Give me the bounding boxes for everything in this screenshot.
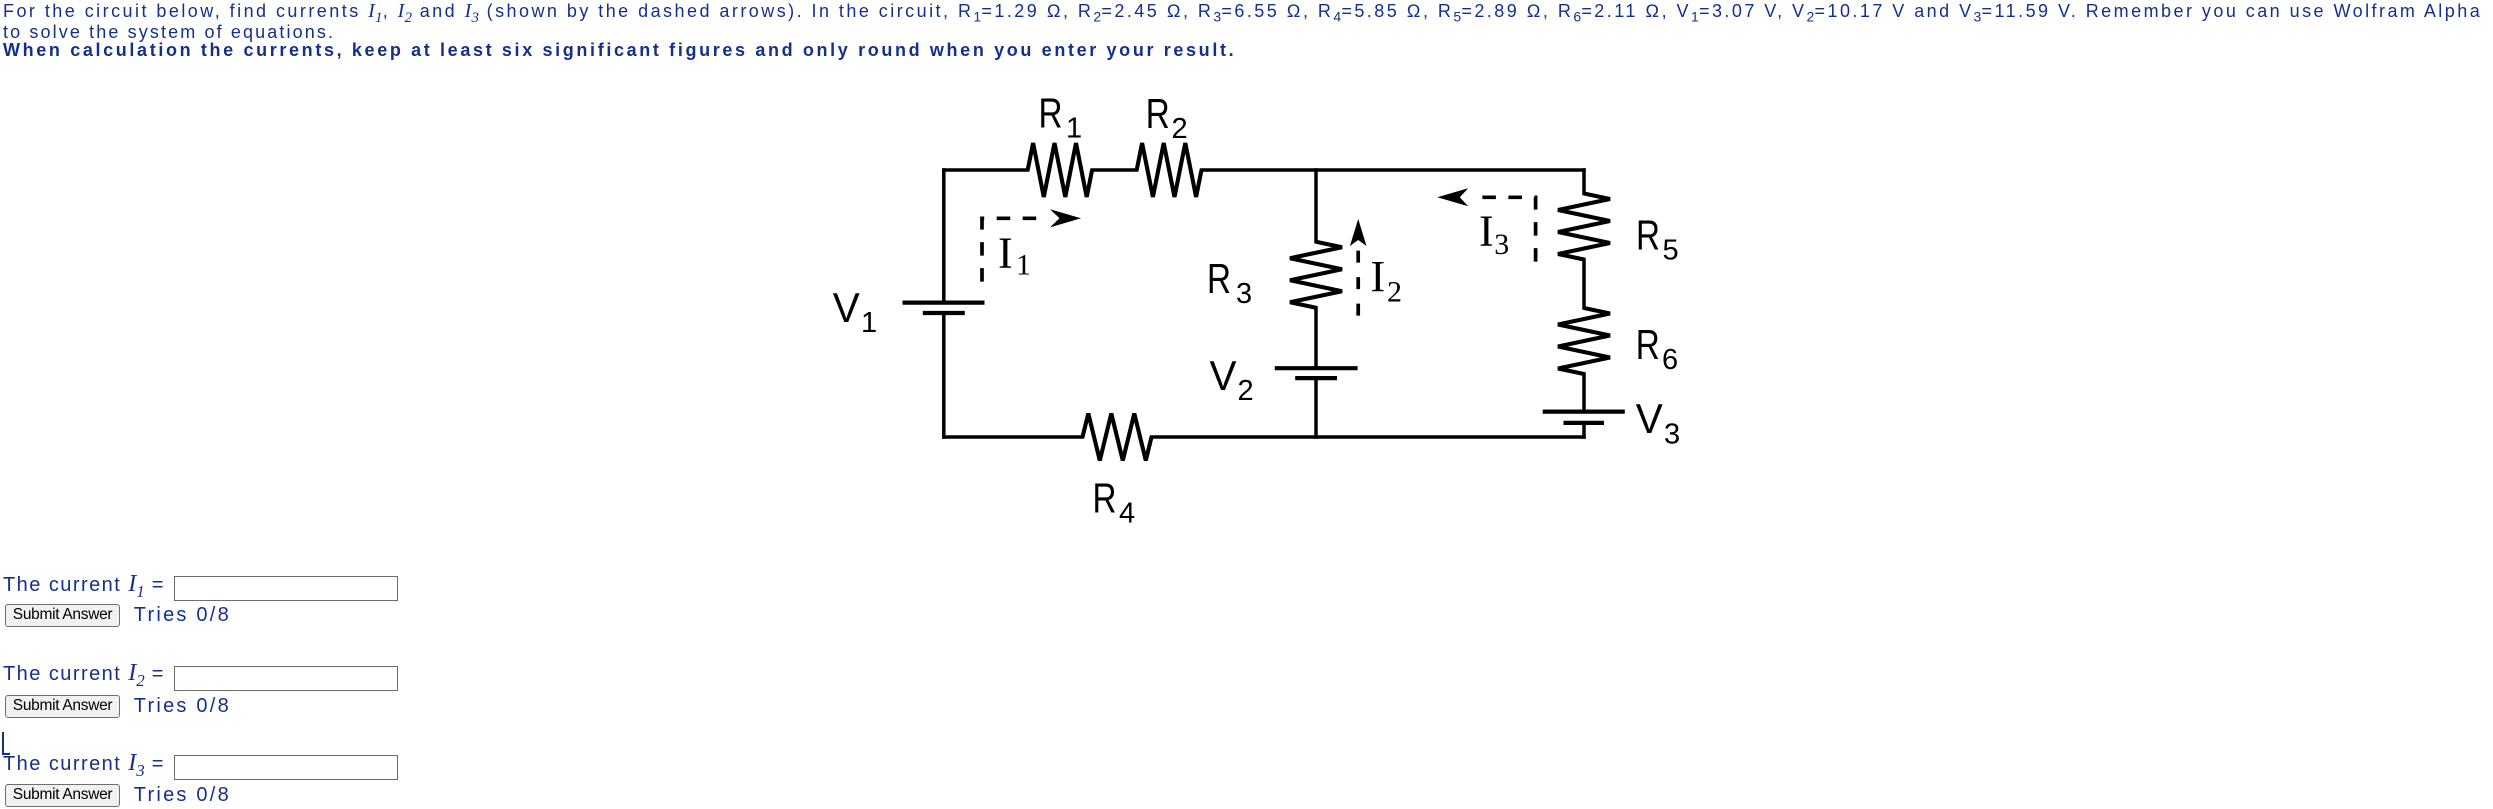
svg-text:R: R: [1636, 321, 1660, 368]
wire top-right segment: [1202, 168, 1585, 172]
svg-text:R: R: [1636, 212, 1660, 259]
current arrow I1 (dashed): [982, 209, 1081, 281]
wire right vertical top (node to R5): [1582, 170, 1586, 194]
resistor R3: [1290, 242, 1342, 308]
svg-text:I: I: [998, 228, 1013, 277]
battery V2: [1275, 368, 1358, 378]
resistor R6: [1558, 308, 1610, 374]
svg-text:V: V: [1210, 352, 1237, 399]
wire between R6 and V3: [1582, 374, 1586, 412]
label R2: [1146, 90, 1188, 145]
resistor R2: [1137, 143, 1202, 197]
svg-text:4: 4: [1119, 498, 1135, 530]
label R1: [1039, 90, 1083, 145]
wire top-left segment: [944, 168, 1028, 172]
label V3: [1636, 395, 1680, 451]
answer row 2: [3, 661, 163, 693]
label V2: [1210, 352, 1254, 407]
wire bottom-left segment: [944, 435, 1083, 439]
svg-text:V: V: [1636, 395, 1663, 442]
svg-text:V: V: [833, 284, 860, 331]
svg-text:3: 3: [1236, 278, 1252, 310]
svg-text:I: I: [1371, 252, 1386, 301]
current arrow I2 (dashed): [1350, 219, 1367, 316]
label I1: [998, 228, 1031, 281]
wire between R1 and R2: [1092, 168, 1137, 172]
label R5: [1636, 212, 1679, 267]
wire left vertical upper (V1 + to top): [942, 170, 946, 303]
svg-text:R: R: [1039, 90, 1063, 137]
current arrow I3 (dashed): [1437, 188, 1535, 261]
label I2: [1371, 252, 1403, 309]
svg-text:2: 2: [1172, 113, 1188, 145]
label R4: [1093, 474, 1136, 529]
text caret artifact: [2, 732, 10, 755]
wire middle branch bottom (V2 - to bottom node): [1314, 378, 1318, 437]
label R6: [1636, 321, 1678, 376]
label V1: [833, 284, 877, 339]
battery V1: [903, 303, 985, 313]
resistor R5: [1558, 194, 1610, 260]
svg-text:1: 1: [1066, 113, 1082, 145]
svg-text:3: 3: [1664, 419, 1680, 451]
svg-text:2: 2: [1387, 276, 1402, 309]
label I3: [1479, 207, 1509, 262]
svg-text:1: 1: [861, 307, 877, 339]
wire middle branch mid (R3 to V2): [1314, 308, 1318, 369]
svg-text:6: 6: [1662, 344, 1678, 376]
battery V3: [1543, 412, 1625, 423]
svg-text:R: R: [1093, 474, 1117, 521]
svg-text:I: I: [1479, 207, 1494, 256]
wire middle branch top (node to R3): [1314, 170, 1318, 242]
answer row 1: [3, 572, 163, 604]
answer row 3: [3, 751, 163, 783]
wire between R5 and R6: [1582, 260, 1586, 309]
svg-text:1: 1: [1016, 248, 1031, 281]
svg-text:3: 3: [1494, 228, 1509, 261]
resistor R1: [1028, 143, 1092, 197]
wire left vertical lower (V1 - to bottom): [942, 313, 946, 437]
wire V3 - to bottom wire: [1582, 423, 1586, 437]
label R3: [1207, 255, 1252, 310]
top problem text: [3, 1, 2482, 29]
svg-text:2: 2: [1238, 375, 1254, 407]
svg-text:5: 5: [1663, 235, 1679, 267]
resistor R4: [1083, 414, 1152, 461]
svg-text:R: R: [1207, 255, 1231, 302]
wire bottom-right segment: [1152, 435, 1585, 439]
svg-text:R: R: [1146, 90, 1170, 137]
